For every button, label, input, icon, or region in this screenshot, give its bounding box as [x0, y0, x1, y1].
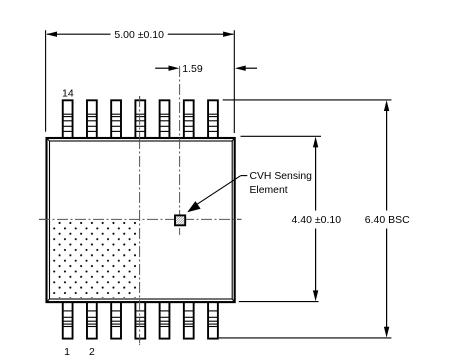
svg-text:1.59: 1.59 — [182, 63, 203, 75]
dimension 4.40 ±0.10 (body height) — [239, 136, 341, 301]
centerline: vertical axis through middle top pin — [139, 96, 141, 138]
centerline: package vertical axis (dash-dot) — [139, 96, 141, 345]
stippled region (active area, lower-left quadrant) — [50, 222, 137, 299]
centerline: vertical axis through middle bottom pin — [139, 302, 141, 345]
pin 8 (top lead) — [208, 100, 218, 138]
svg-text:CVH Sensing: CVH Sensing — [250, 171, 313, 182]
dimension 1.59 (sensing element offset) — [155, 63, 257, 75]
pin 13 (top lead) — [87, 100, 97, 138]
svg-text:14: 14 — [62, 88, 74, 100]
centerline: horizontal axis inside body (redraw over body fill) — [39, 218, 242, 220]
svg-text:Element: Element — [250, 185, 288, 196]
centerline: package horizontal axis (dash-dot) — [39, 218, 242, 220]
svg-text:6.40 BSC: 6.40 BSC — [365, 214, 410, 226]
centerline: sensing element axis (vertical dash-dot) — [179, 66, 181, 235]
centerline: vertical axis inside body — [139, 138, 141, 302]
pin 6 (bottom lead) — [184, 302, 194, 339]
pin 2 (bottom lead) — [87, 302, 97, 339]
package body outer outline — [47, 138, 235, 302]
pin 5 (bottom lead) — [160, 302, 170, 339]
pin 9 (top lead) — [184, 100, 194, 138]
dimension 6.40 BSC (lead span) — [219, 100, 410, 338]
svg-text:4.40 ±0.10: 4.40 ±0.10 — [292, 214, 342, 226]
pin 7 (bottom lead) — [208, 302, 218, 339]
svg-text:1: 1 — [64, 346, 70, 358]
pin 10 (top lead) — [160, 100, 170, 138]
CVH sensing element (hatched square) — [175, 215, 185, 225]
svg-text:2: 2 — [89, 346, 95, 358]
pin 11 (top lead) — [135, 100, 145, 138]
svg-text:5.00 ±0.10: 5.00 ±0.10 — [114, 29, 164, 41]
pin 1 (bottom lead) — [63, 302, 73, 339]
pin 14 (top lead) — [63, 100, 73, 138]
pin 3 (bottom lead) — [111, 302, 121, 339]
pin 4 (bottom lead) — [135, 302, 145, 339]
callout: CVH Sensing Element label with leader arrow — [187, 171, 312, 212]
pin 12 (top lead) — [111, 100, 121, 138]
centerline: sensing axis inside body — [179, 138, 181, 235]
dimension 5.00 ±0.10 (package width) — [46, 29, 235, 133]
